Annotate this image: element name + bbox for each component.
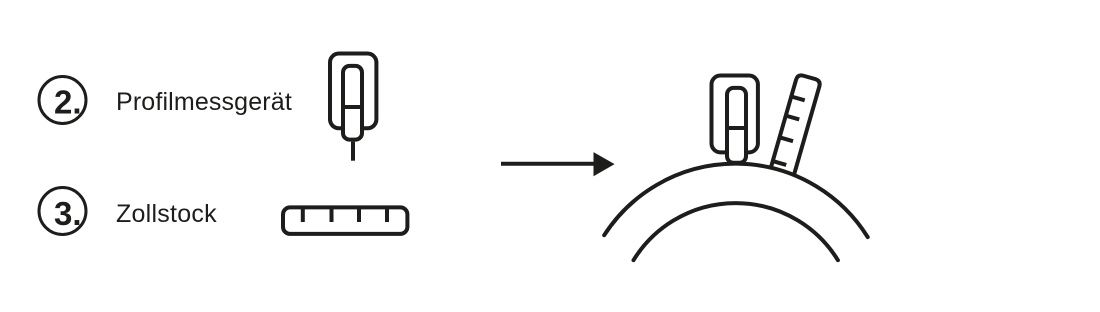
svg-text:2.: 2. <box>54 84 82 121</box>
svg-text:Zollstock: Zollstock <box>116 200 217 228</box>
slanted ruler tick 3 <box>780 137 793 141</box>
ruler tick 4 <box>385 207 389 222</box>
svg-text:3.: 3. <box>54 195 82 232</box>
ruler tick 1 <box>301 207 305 222</box>
gauge outer body <box>330 54 376 129</box>
gauge slider divider <box>726 126 748 130</box>
gauge inner slider <box>343 66 362 140</box>
ruler body <box>283 207 407 234</box>
tread depth gauge icon on tire (right) <box>712 76 758 163</box>
tire outer arc <box>604 164 868 237</box>
step circle 2 <box>39 77 86 124</box>
gauge slider divider <box>342 105 364 109</box>
tire inner arc <box>634 203 838 260</box>
slanted ruler tick 2 <box>786 116 799 120</box>
tread depth gauge icon (left) <box>330 54 376 161</box>
slanted ruler on tire <box>770 74 821 176</box>
gauge outer body <box>712 76 758 153</box>
ruler tick 3 <box>357 207 361 222</box>
ruler tick 2 <box>330 207 334 222</box>
ruler icon (Zollstock) <box>283 207 407 234</box>
gauge inner slider <box>727 88 746 163</box>
gauge needle <box>351 142 355 161</box>
slanted ruler tick 4 <box>773 161 786 165</box>
slanted ruler tick 1 <box>791 96 804 100</box>
step circle 3 <box>39 188 86 235</box>
svg-text:Profilmessgerät: Profilmessgerät <box>116 88 292 116</box>
arrow <box>501 152 615 176</box>
slanted ruler body <box>770 74 821 176</box>
